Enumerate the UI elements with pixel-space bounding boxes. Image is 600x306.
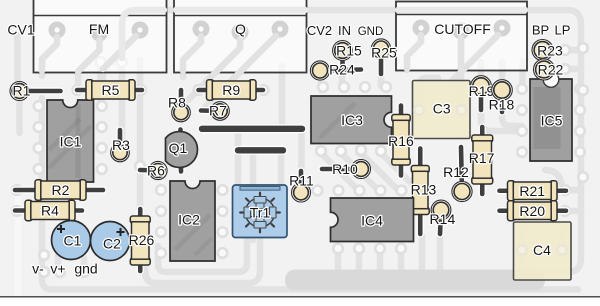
IC1 grid pads [34,101,44,111]
resistor R21 [500,181,567,201]
svg-text:R16: R16 [388,133,414,149]
capacitor C4 [514,222,572,280]
svg-text:R5: R5 [102,82,120,98]
svg-text:BP: BP [532,23,549,38]
wire jumper W2 [238,146,283,155]
svg-text:R10: R10 [332,161,358,177]
resistor R4 [15,200,82,220]
svg-text:R26: R26 [129,232,155,248]
resistor R12 [443,147,472,202]
svg-text:C4: C4 [533,242,551,258]
resistor R3 [110,130,130,162]
svg-text:IC5: IC5 [541,113,563,129]
resistor R22 [533,59,564,81]
svg-text:R23: R23 [537,43,563,59]
wire trace IC4 bottom stubs [335,249,342,274]
svg-text:IC1: IC1 [60,134,82,150]
op-amp IC2 [170,181,215,261]
resistor R24 [310,60,361,80]
wire trace top rail [122,10,581,272]
wire trace right side [478,62,485,80]
wire traces inside pots [42,10,525,87]
resistor R5 [77,80,142,100]
op-amp IC4 [331,198,414,242]
svg-text:C3: C3 [433,101,451,117]
svg-text:IC2: IC2 [178,212,200,228]
svg-text:R15: R15 [336,43,362,59]
wire trace under C4 [519,228,526,268]
resistor R2 [15,180,103,200]
svg-text:R14: R14 [430,211,456,227]
svg-text:R21: R21 [519,183,545,199]
svg-text:Tr1: Tr1 [250,205,271,221]
resistor R19 [469,75,495,110]
wire trace FM pot pads [42,33,57,76]
svg-text:Q: Q [235,21,246,37]
svg-text:R3: R3 [112,137,130,153]
resistor R14 [430,200,456,234]
resistor R13 [411,149,437,235]
svg-text:IC3: IC3 [341,112,363,128]
transistor Q1 [166,130,198,172]
svg-text:C1: C1 [64,233,82,249]
resistor R10 [322,159,371,179]
svg-text:R6: R6 [147,163,165,179]
wire trace under IC2 [145,238,260,283]
resistor R25 [371,38,397,74]
svg-text:GND: GND [358,26,384,38]
svg-text:R13: R13 [411,182,437,198]
IC2 grid pads [156,185,166,195]
svg-text:R4: R4 [41,203,59,219]
svg-text:R1: R1 [13,83,31,99]
svg-text:R24: R24 [329,62,355,78]
resistor R6 [140,161,168,180]
potentiometer FM (CV1) [34,0,167,73]
potentiometer Q [174,0,307,73]
IC5 notch pad [543,72,559,88]
wire trace verticals left [14,35,21,80]
op-amp IC5 [530,79,572,161]
svg-text:R2: R2 [52,182,70,198]
potentiometer CUTOFF [396,2,527,71]
capacitor C3 [413,81,471,139]
svg-text:IN: IN [338,23,351,38]
trimmer Tr1 [233,185,288,238]
board bottom edge [0,298,600,302]
pot solder pads [49,20,511,42]
capacitor C2 [91,222,130,261]
svg-text:gnd: gnd [74,261,97,277]
resistor R16 [388,106,414,176]
wire jumper W1 [202,124,302,133]
op-amp IC3 [311,96,392,144]
svg-text:v-: v- [32,261,44,277]
wire trace mid verticals [279,66,286,124]
svg-text:R9: R9 [222,82,240,98]
misc pads [560,45,570,55]
wire trace CUTOFF pot pads [407,31,421,70]
svg-text:R25: R25 [371,45,397,61]
svg-text:LP: LP [555,23,571,38]
svg-text:v+: v+ [50,261,65,277]
wire trace under C3 [419,78,438,110]
resistor R8 [168,90,191,122]
svg-text:R20: R20 [519,203,545,219]
svg-text:R8: R8 [168,95,186,111]
resistor R26 [129,209,155,271]
resistor R17 [469,127,495,194]
resistor R9 [199,80,264,100]
svg-text:R12: R12 [443,164,469,180]
wire trace wide power band [285,270,545,291]
svg-text:R18: R18 [489,97,515,113]
svg-text:CUTOFF: CUTOFF [434,21,491,37]
svg-text:R17: R17 [469,150,495,166]
resistor R23 [532,39,564,61]
resistor R20 [500,201,567,221]
svg-text:CV1: CV1 [7,22,34,38]
svg-text:CV2: CV2 [307,23,332,38]
resistor R11 [289,171,314,203]
capacitor C1 [52,221,91,260]
IC5 grid pads [517,84,527,94]
resistor R1 [10,81,61,101]
wire trace bottom rail [42,98,578,290]
IC3 grid pads [318,82,328,92]
svg-text:R7: R7 [209,103,227,119]
resistor R7 [201,101,230,121]
svg-text:R22: R22 [538,62,564,78]
svg-text:R11: R11 [289,173,314,189]
resistor R18 [489,79,515,112]
svg-text:Q1: Q1 [169,140,188,156]
svg-text:FM: FM [89,21,109,37]
svg-text:C2: C2 [103,236,121,252]
op-amp IC1 [47,100,94,182]
resistor R15 [332,40,362,66]
IC4 grid pads [313,186,323,196]
wire trace Q pot pads [183,32,201,77]
svg-text:IC4: IC4 [361,213,383,229]
